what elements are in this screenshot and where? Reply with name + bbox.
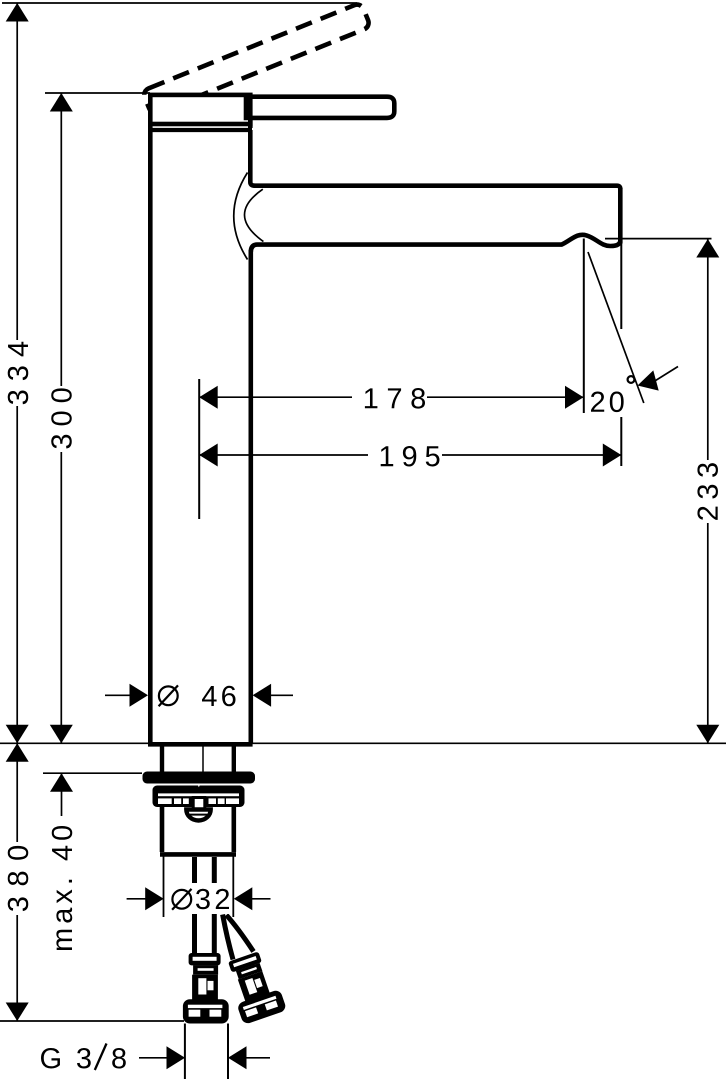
- 380 down arrow: [6, 1003, 29, 1022]
- bottom reference line (380): [0, 1020, 184, 1022]
- text 380 (rotated): [8, 846, 29, 911]
- extension line aerator (178): [583, 239, 585, 414]
- 195 left arrow: [199, 444, 218, 467]
- slash of G 3/8: [95, 1044, 107, 1071]
- 195 right arrow: [603, 444, 622, 467]
- spout bottom edge with aerator wave: [251, 235, 621, 252]
- dim Ø32 lines: [127, 898, 146, 900]
- text max. 40 (rotated): [52, 826, 73, 950]
- cap right edge over lever joint: [248, 96, 253, 128]
- pull rod line: [202, 746, 204, 772]
- drain dome: [186, 810, 210, 821]
- text 178: [365, 388, 425, 409]
- lever bar: [246, 97, 394, 118]
- G3/8 left arrow: [167, 1046, 186, 1069]
- text 3 of 3/8: [77, 1048, 91, 1069]
- text 20: [591, 392, 624, 413]
- locknut: [153, 785, 245, 807]
- shank lower (nut to tailpiece bottom): [160, 806, 165, 852]
- dim 233 vertical line: [707, 239, 709, 460]
- 233 up arrow: [696, 239, 719, 258]
- extension line left (178/195): [198, 379, 200, 519]
- Ø32 right arrow: [234, 887, 253, 910]
- dim 300 vertical line: [60, 93, 62, 386]
- 20 degree slant line: [588, 252, 644, 403]
- text 195: [381, 446, 440, 467]
- spout top edge: [254, 186, 621, 189]
- body bottom edge: [148, 742, 253, 747]
- drain stub: [193, 798, 205, 812]
- 178 left arrow: [199, 386, 218, 409]
- text 46: [202, 686, 236, 707]
- text 8 of 3/8: [112, 1048, 126, 1069]
- spout-bottom reference line (233): [605, 238, 712, 240]
- 233 down arrow: [696, 725, 719, 744]
- dashed lever (raised position): [142, 3, 371, 116]
- body left edge: [148, 126, 153, 744]
- shank upper (body to flange): [160, 744, 164, 773]
- tailpiece silhouette / dia32 extension lines: [163, 857, 165, 918]
- hose end tube to image bottom: [184, 1024, 186, 1079]
- dim max40 stem: [61, 773, 63, 816]
- 334 down arrow: [6, 725, 29, 744]
- degree circle for 20deg: [628, 376, 635, 383]
- Ø46 right arrow: [253, 684, 272, 707]
- extension line spout tip (195/20deg): [620, 238, 622, 329]
- text G: [41, 1048, 60, 1069]
- dim 178 horizontal: [199, 396, 352, 398]
- diameter symbol for Ø32: [172, 889, 191, 910]
- G3/8 right arrow: [228, 1046, 247, 1069]
- joint crescent curves at body/spout junction: [234, 173, 248, 260]
- countertop line: [0, 742, 726, 744]
- 20 degree leader tail: [654, 367, 678, 382]
- body right edge upper (cap to spout): [250, 130, 254, 186]
- Ø46 left arrow: [130, 684, 149, 707]
- dim 334 vertical line: [16, 3, 18, 340]
- text 300 (rotated): [51, 388, 72, 448]
- 178 right arrow: [565, 386, 584, 409]
- dim G3/8 lines: [139, 1057, 167, 1059]
- text 233 (rotated): [697, 463, 718, 520]
- handle-top reference line (300): [45, 92, 150, 94]
- text 32: [196, 889, 229, 910]
- mounting flange (black bar): [143, 772, 256, 784]
- tailpiece bottom edge: [160, 852, 236, 857]
- handle cap: [150, 95, 250, 124]
- 300 up arrow: [50, 93, 73, 112]
- spout right edge: [618, 188, 623, 244]
- dim 195 horizontal: [199, 454, 368, 456]
- dim 380 vertical line: [16, 743, 18, 842]
- Ø32 left arrow: [145, 887, 164, 910]
- diameter symbol for Ø46: [159, 685, 178, 706]
- cap base ring: [149, 128, 252, 132]
- 300 down arrow: [50, 725, 73, 744]
- text 334 (rotated): [8, 342, 29, 404]
- max40 up arrow: [50, 773, 73, 792]
- top reference line (334): [2, 2, 357, 4]
- 20deg leader arrowhead: [638, 370, 659, 390]
- dim Ø46 lines: [105, 694, 130, 696]
- 334 up arrow: [6, 3, 29, 22]
- max40 reference line: [43, 772, 142, 774]
- white halo behind dia32 label: [167, 883, 231, 914]
- body right edge lower: [249, 250, 254, 744]
- 380 up arrow: [6, 743, 29, 762]
